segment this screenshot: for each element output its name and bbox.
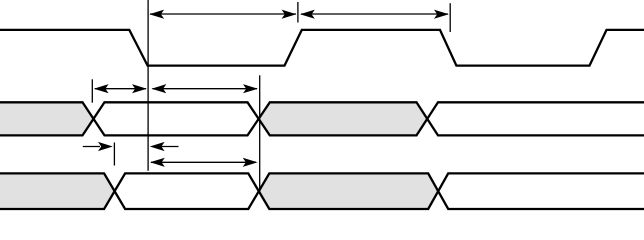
tick B (x=450, top row) [449,3,451,32]
dimension arrow 1a (clock low pulse width, 148 to 298) [149,10,296,19]
bus DATA1 valid segment fill (left gray), row 2 [0,102,94,135]
reference line 2 (bus transition, x=259.7) [259,75,261,192]
dimension arrow 2a (setup time, 92 to 148) [94,84,147,93]
dimension arrow 3 right half (outside arrow pointing left at line 1) [150,142,179,151]
bus DATA2 (row 3) upper zigzag edge [0,173,644,209]
tick D (x=114.4, row 3) [113,143,115,166]
bus DATA1 (row 2) lower zigzag edge [0,102,644,135]
tick A (x=298, top row) [297,2,299,23]
reference line 1 (clock falling edge, x=148) [147,0,149,171]
bus DATA2 (row 3) lower zigzag edge [0,173,644,209]
dimension arrow 4 (access time, 148 to 259.7) [150,158,258,167]
bus DATA1 (row 2) upper zigzag edge [0,102,644,135]
dimension arrow 1b (clock high pulse width, 298 to 450) [300,10,449,19]
dimension arrow 2b (hold time, 148 to 259.7) [152,84,258,93]
clock waveform (row 1) [0,30,644,66]
bus DATA2 valid segment fill (left gray), row 3 [0,173,115,209]
tick C (x=92.3, row 2) [91,79,93,102]
bus DATA2 valid segment fill (center gray), row 3 [259,173,438,209]
dimension arrow 3 left half (outside arrow pointing right at tick D) [83,142,113,151]
bus DATA1 valid segment fill (center gray), row 2 [259,102,428,135]
